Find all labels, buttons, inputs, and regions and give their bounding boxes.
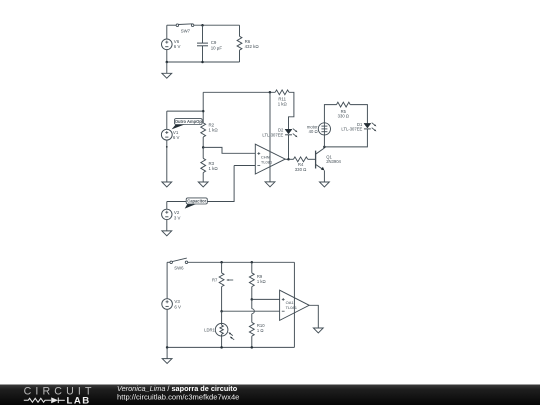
svg-text:Outro AmpOp: Outro AmpOp (175, 119, 202, 124)
battery V2 (162, 209, 172, 219)
footer bar (0, 385, 540, 405)
svg-text:R7: R7 (212, 278, 218, 283)
rheostat R7 (219, 273, 224, 287)
ground (198, 182, 208, 187)
wire (202, 137, 204, 147)
wire (222, 310, 280, 312)
switch SW7 (176, 24, 179, 27)
svg-text:1 Ω: 1 Ω (257, 328, 264, 333)
battery V6 (162, 39, 173, 50)
svg-text:432 kΩ: 432 kΩ (245, 44, 260, 49)
svg-text:LTL-307EE: LTL-307EE (262, 132, 283, 137)
node junction (220, 310, 223, 313)
wire (167, 110, 203, 112)
node junction (220, 261, 223, 264)
resistor R10 (249, 322, 254, 336)
svg-text:1 kΩ: 1 kΩ (209, 128, 219, 133)
resistor R2 (201, 123, 206, 137)
node junction (202, 146, 205, 149)
wire (166, 62, 168, 73)
wire (221, 262, 223, 273)
wire (289, 158, 294, 160)
node junction (251, 261, 254, 264)
ground (162, 182, 172, 187)
op-amp power wire (293, 262, 295, 347)
svg-text:330 Ω: 330 Ω (338, 114, 349, 119)
node junction (202, 110, 205, 113)
rheostat R7 arrow (229, 279, 234, 281)
svg-text:LAB: LAB (67, 395, 91, 405)
svg-text:TL081: TL081 (286, 305, 298, 310)
node junction (251, 346, 254, 349)
resistor R6 (237, 36, 242, 50)
led D2 arrows (293, 129, 296, 131)
annotation Capacitor (185, 204, 197, 209)
wire (202, 92, 204, 123)
switch SW6 (170, 261, 173, 264)
wire (323, 135, 325, 147)
photoresistor LDR1 (215, 323, 228, 336)
annotation Outro AmpOp (172, 125, 185, 130)
wire (252, 298, 280, 300)
wire (289, 92, 294, 129)
wire (251, 299, 253, 308)
op-amp power wire (269, 92, 271, 182)
node junction (251, 298, 254, 301)
svg-text:LTL-307EE: LTL-307EE (341, 127, 362, 132)
wire (251, 314, 253, 323)
svg-text:2N3904: 2N3904 (326, 159, 341, 164)
wire hop (252, 309, 255, 314)
svg-text:1 kΩ: 1 kΩ (278, 101, 288, 106)
wire (166, 111, 168, 129)
wire (239, 25, 241, 36)
node junction (201, 24, 204, 27)
wire (166, 25, 168, 39)
wire (285, 158, 288, 160)
node junction (287, 158, 290, 161)
op-amp minus input (282, 310, 285, 312)
wire (251, 336, 253, 347)
wire (194, 24, 240, 26)
wire (167, 261, 170, 263)
svg-text:1 kΩ: 1 kΩ (209, 166, 219, 171)
op-amp plus input (282, 298, 285, 300)
op-amp plus input (257, 153, 260, 155)
wire (350, 105, 367, 124)
svg-text:3 V: 3 V (174, 215, 181, 220)
ground (162, 359, 172, 364)
node junction (166, 346, 169, 349)
led D1 arrows (372, 123, 375, 125)
node junction (269, 91, 272, 94)
wire (324, 105, 336, 123)
node junction (201, 61, 204, 64)
CircuitLab logo resistor-diode glyph (24, 398, 65, 404)
wire (251, 262, 253, 273)
resistor R3 (201, 158, 206, 172)
wire (188, 261, 295, 263)
wire (166, 262, 168, 298)
led D1 (364, 123, 371, 128)
node junction (166, 61, 169, 64)
svg-text:1 kΩ: 1 kΩ (257, 279, 266, 284)
op-amp minus input (257, 165, 260, 167)
wire (202, 46, 204, 62)
wire (324, 129, 367, 147)
svg-text:6 V: 6 V (174, 304, 181, 309)
wire (166, 202, 168, 210)
svg-text:6 V: 6 V (173, 135, 180, 140)
wire (202, 25, 204, 43)
wire (288, 135, 290, 160)
wire (166, 347, 168, 358)
wire (167, 166, 234, 202)
wire (166, 309, 168, 347)
wire (166, 220, 168, 231)
svg-text:6 V: 6 V (174, 44, 181, 49)
wire (203, 147, 255, 153)
svg-text:SW7: SW7 (181, 29, 191, 34)
ground (313, 328, 323, 333)
wire (166, 140, 168, 182)
node junction (323, 146, 326, 149)
wire (167, 346, 294, 348)
node junction (220, 346, 223, 349)
wire (167, 24, 176, 26)
motor M1 (318, 123, 330, 135)
resistor R4 (294, 157, 308, 162)
wire (309, 305, 318, 328)
wire (251, 287, 253, 300)
svg-text:10 µF: 10 µF (211, 45, 223, 50)
svg-text:SW6: SW6 (174, 265, 184, 270)
wire (202, 173, 204, 182)
ground (265, 182, 275, 187)
op-amp U1 (255, 144, 285, 174)
node joint (166, 146, 168, 148)
photoresistor LDR1 arrows (230, 334, 232, 336)
op-amp OA1 (280, 290, 310, 320)
svg-text:LDR1: LDR1 (204, 327, 215, 332)
transistor Q1 (315, 151, 317, 169)
capacitor C9 (197, 42, 208, 44)
wire (221, 287, 223, 312)
wire (221, 335, 223, 348)
battery V3 (162, 299, 173, 310)
wire (166, 50, 168, 62)
ground (162, 73, 172, 78)
resistor R5 (337, 102, 351, 107)
svg-text:Capacitor: Capacitor (187, 199, 206, 204)
svg-text:http://circuitlab.com/c3mefkde: http://circuitlab.com/c3mefkde7wx4e (117, 392, 239, 401)
wire (239, 50, 241, 62)
svg-text:TL081: TL081 (261, 159, 273, 164)
battery V1 (161, 129, 172, 140)
led D2 (285, 129, 292, 134)
svg-text:40 Ω: 40 Ω (309, 129, 318, 134)
wire (308, 158, 316, 160)
ground (320, 182, 330, 187)
wire (202, 147, 204, 158)
wire (203, 91, 275, 93)
wire (221, 311, 223, 323)
resistor R11 (275, 90, 289, 95)
wire (167, 61, 240, 63)
ground (162, 231, 172, 236)
wire (234, 165, 255, 167)
resistor R9 (249, 273, 254, 287)
svg-text:330 Ω: 330 Ω (295, 167, 307, 172)
